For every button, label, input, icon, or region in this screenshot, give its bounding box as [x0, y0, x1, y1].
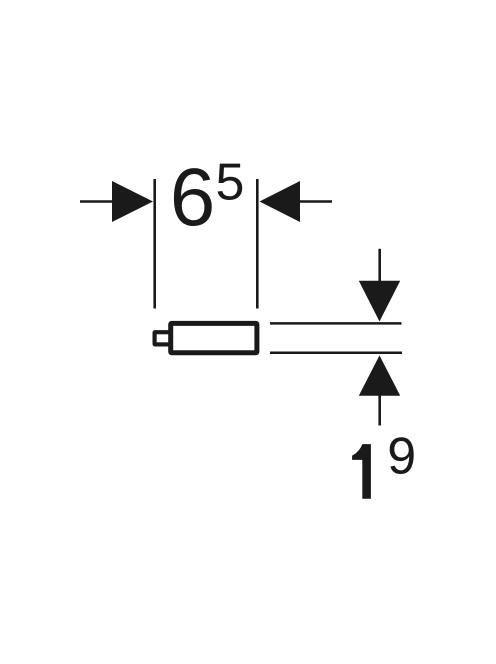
dimension label 1	[352, 444, 371, 499]
wire: top lead line of vertical dimension	[378, 249, 381, 285]
svg-text:9: 9	[387, 427, 416, 485]
svg-text:6: 6	[170, 152, 216, 243]
wire: left extension line	[153, 179, 156, 309]
wire: right extension line	[256, 179, 259, 309]
wire: left lead line of horizontal dimension	[80, 200, 120, 203]
nub on connector (left spigot)	[153, 330, 171, 346]
arrowhead up	[359, 355, 400, 395]
wire: upper level line	[270, 322, 402, 325]
arrowhead left (points right)	[112, 181, 153, 222]
arrowhead down	[359, 281, 400, 322]
wire: lower level line	[270, 351, 402, 354]
connector body rectangle	[171, 323, 257, 352]
wire: bottom lead line of vertical dimension	[378, 392, 381, 426]
svg-text:5: 5	[216, 153, 245, 211]
wire: right lead line of horizontal dimension	[298, 200, 332, 203]
arrowhead right (points left)	[260, 181, 301, 222]
